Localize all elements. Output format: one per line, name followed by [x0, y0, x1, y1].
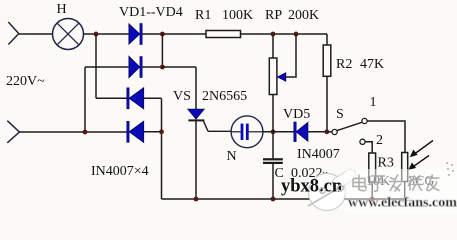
node junction VS cathode rail: [194, 197, 199, 202]
diode VD1: [129, 24, 142, 45]
diode VD2: [129, 57, 142, 78]
svg-text:2: 2: [376, 133, 383, 148]
watermark CJK glyph 3: [389, 175, 403, 192]
lamp H: [53, 19, 84, 50]
wire: [83, 33, 129, 35]
resistor R2: [323, 34, 331, 132]
watermark CJK glyph 5: [427, 175, 440, 192]
thyristor VS: [188, 109, 231, 131]
label RP 200K: [265, 8, 319, 23]
diode VD4: [127, 121, 144, 142]
watermark ybx8 logo: [308, 167, 358, 210]
label R2 47K: [336, 57, 384, 72]
watermark logo rings: [320, 185, 344, 193]
svg-text:H: H: [57, 2, 67, 17]
wire: [19, 33, 53, 35]
wire: [367, 121, 405, 153]
wire: [142, 33, 206, 35]
svg-text:47K: 47K: [360, 57, 384, 72]
capacitor C: [263, 132, 283, 199]
wire: [85, 66, 129, 68]
wire: [365, 142, 372, 153]
node junction VD4 anode: [159, 129, 164, 134]
wire: [161, 98, 163, 199]
node junction VD2 cathode: [160, 65, 165, 70]
terminal J1 (220V input top): [8, 22, 18, 45]
node junction lamp/VD1/VD3: [94, 32, 99, 37]
watermark CJK glyph 2: [371, 176, 386, 191]
svg-text:200K: 200K: [288, 8, 319, 23]
watermark dots: [446, 162, 454, 176]
wire: [96, 97, 127, 99]
photoresistor RG: [402, 153, 408, 200]
svg-text:IN4007: IN4007: [297, 147, 340, 162]
node junction VD1 cathode: [160, 32, 165, 37]
wire: [95, 34, 97, 98]
node junction N/RP/C/VD5: [271, 129, 276, 134]
svg-text:1: 1: [370, 95, 377, 110]
svg-text:VD5: VD5: [283, 107, 310, 122]
label C 0.022u: [275, 166, 329, 181]
node junction C bottom rail: [271, 197, 276, 202]
resistor R1: [206, 31, 241, 38]
RG light arrow 2: [408, 156, 429, 171]
label R1 100K: [195, 8, 253, 23]
svg-text:N: N: [227, 149, 237, 164]
wire: [142, 66, 162, 68]
potentiometer RP: [269, 34, 277, 132]
wire: [144, 131, 162, 133]
switch S: [327, 118, 367, 144]
svg-text:RP: RP: [265, 8, 282, 23]
wire: [241, 33, 328, 35]
svg-text:100K: 100K: [222, 8, 253, 23]
wire: [162, 66, 196, 68]
svg-text:R3: R3: [378, 156, 394, 171]
svg-text:ybx8.cn: ybx8.cn: [281, 177, 343, 197]
watermark white band: [345, 169, 457, 214]
svg-text:S: S: [336, 107, 344, 122]
wire bottom rail: [162, 198, 405, 200]
svg-text:www.elecfans.com: www.elecfans.com: [348, 196, 457, 211]
neon lamp N: [231, 116, 263, 148]
node junction AC2: [83, 130, 88, 135]
node junction VD5/R2/S: [324, 129, 329, 134]
RP wiper: [278, 34, 297, 81]
node junction R3 bottom rail: [370, 197, 375, 202]
wire: [263, 131, 294, 133]
watermark CJK glyph 4: [408, 175, 423, 191]
svg-text:VS: VS: [173, 89, 191, 104]
watermark CJK glyph 1: [353, 175, 366, 191]
svg-text:220V~: 220V~: [6, 74, 45, 89]
terminal J2 (220V input bottom): [7, 121, 19, 143]
wire VS cathode: [195, 121, 197, 199]
svg-text:IN4007×4: IN4007×4: [91, 164, 149, 179]
svg-text:R1: R1: [195, 8, 211, 23]
wire: [19, 131, 126, 133]
svg-text:R2: R2: [336, 57, 352, 72]
resistor R3: [369, 153, 376, 199]
wire: [308, 131, 327, 133]
svg-text:VD1--VD4: VD1--VD4: [119, 5, 183, 20]
wire: [84, 67, 86, 132]
node junction RP wiper tap: [294, 32, 299, 37]
svg-text:2N6565: 2N6565: [202, 89, 247, 104]
diode VD5: [294, 122, 308, 142]
RG light arrow 1: [410, 141, 433, 158]
diode VD3: [127, 88, 144, 109]
wire: [144, 97, 162, 99]
wire: [161, 34, 163, 67]
node junction RP top: [271, 32, 276, 37]
wire: [195, 67, 197, 109]
label VS 2N6565: [173, 89, 247, 104]
